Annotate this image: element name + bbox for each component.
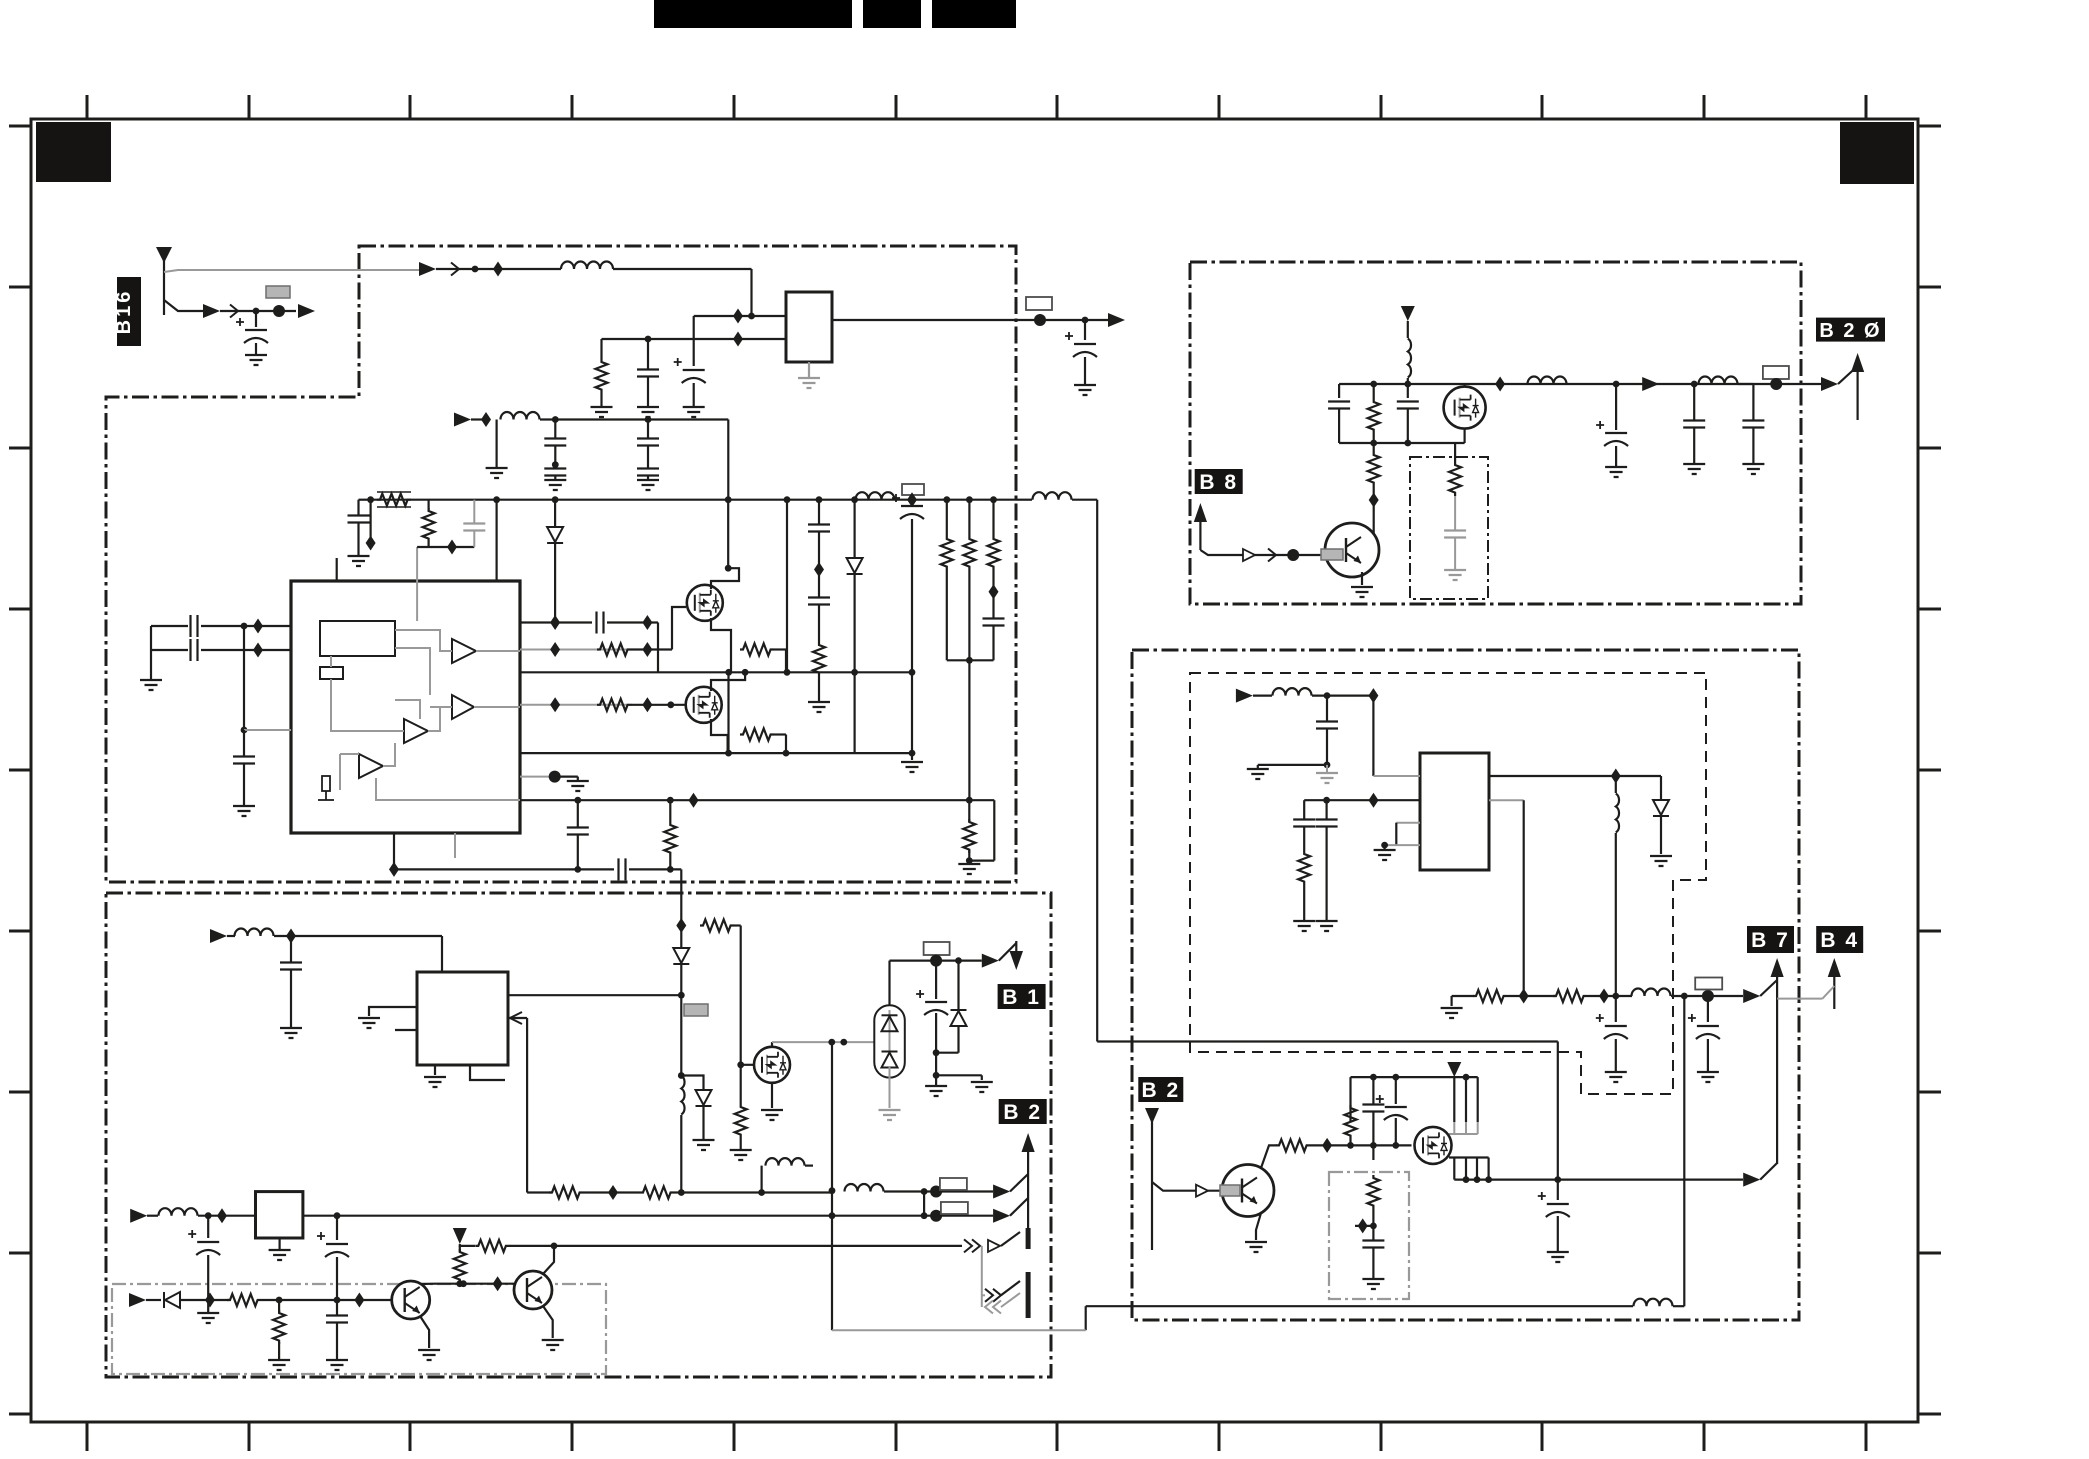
- inductor L return link: [1634, 1299, 1673, 1307]
- wire rail-A right: [613, 268, 752, 270]
- wire winding stub end: [805, 1164, 813, 1166]
- wire B1 gnd bar: [936, 1074, 982, 1076]
- MOSFET Q9 source pins: [1454, 1158, 1488, 1180]
- junction diamond osc lower: [253, 643, 263, 658]
- resistor R sense3: [988, 536, 1000, 570]
- solder junction comp: [549, 771, 561, 783]
- capacitor C snub1: [808, 525, 830, 532]
- junction diamond out-div: [1519, 989, 1529, 1004]
- chevron main rail entry: [451, 263, 459, 276]
- wire mid rail rise to transformer: [786, 500, 788, 673]
- MOSFET Q2 low-side: [686, 687, 722, 723]
- wire sense b: [261, 1299, 391, 1301]
- wire cap lead: [255, 311, 257, 327]
- junction return a: [725, 750, 732, 757]
- wire Q6 drain: [1463, 384, 1465, 386]
- svg-text:B 2: B 2: [1003, 1101, 1042, 1124]
- resistor R stby divider: [454, 1249, 466, 1283]
- wire FB R bottom lead: [669, 856, 671, 869]
- junction B1 diode tap: [955, 957, 962, 964]
- internal resistor bias: [322, 776, 330, 791]
- ground B7 entry b: [1316, 773, 1338, 783]
- wire RC mid top: [1373, 384, 1375, 399]
- wire snub chain bottom: [818, 676, 820, 702]
- junction Q1 drain: [725, 565, 732, 572]
- op-amp A1 driver: [452, 639, 476, 663]
- capacitor C osc lower: [191, 639, 198, 661]
- resistor R row3: [475, 1240, 509, 1252]
- arrow B20 mid: [1642, 377, 1659, 391]
- wire B4 connector slant: [1823, 986, 1835, 999]
- wire bus slant a: [1001, 1281, 1020, 1295]
- arrow aux2 entry: [130, 1209, 147, 1223]
- ground stby IC: [424, 1077, 446, 1087]
- gray dash-dot inner box standby input: [112, 1284, 606, 1374]
- wire sense a: [181, 1299, 229, 1301]
- diode D catch: [1653, 800, 1669, 816]
- solder junction reg output: [1034, 314, 1046, 326]
- wire gate4 row right: [631, 704, 686, 706]
- junction diamond gate4 out: [642, 697, 652, 712]
- junction diamond osc upper: [253, 619, 263, 634]
- wire B7 stem: [1776, 975, 1778, 1164]
- wire FB row right: [674, 1191, 832, 1193]
- safety resistor R-fusible: [377, 494, 411, 506]
- wire sense3 cap lead: [992, 595, 994, 618]
- wire B1 gnd stub: [981, 1075, 983, 1080]
- wire osc upper to IC: [201, 625, 291, 627]
- ground B16 cap: [245, 355, 267, 365]
- ground zener: [693, 1140, 715, 1150]
- junction FB sense: [966, 797, 973, 804]
- resistor R sense2: [963, 536, 975, 570]
- junction mid rail clamp: [851, 669, 858, 676]
- wire timing drop: [243, 626, 245, 730]
- wire catch diode gnd lead: [1660, 816, 1662, 854]
- junction B20 rail b: [1404, 381, 1411, 388]
- wire Q2 source to return: [711, 719, 728, 753]
- wire Rcs gnd stub: [968, 861, 970, 864]
- wire stby FB drop: [526, 1018, 528, 1193]
- inductor L buck: [1616, 794, 1619, 833]
- ground aux regulator: [269, 1250, 291, 1260]
- wire output row b: [1587, 995, 1632, 997]
- inductor L out row1: [845, 1184, 884, 1192]
- inductor L B20 filter2: [1699, 377, 1738, 385]
- junction diamond gate row: [1322, 1138, 1332, 1153]
- capacitor C osc upper: [191, 615, 198, 637]
- wire sense3 top: [992, 500, 994, 536]
- connector label B8: [1195, 469, 1243, 494]
- junction top rail c: [1463, 1074, 1470, 1081]
- wire B20 cap3 gnd lead: [1752, 428, 1754, 464]
- junction B20 ecap: [1613, 381, 1620, 388]
- wire B7-B4 link: [1777, 998, 1822, 1000]
- junction mid rail end: [784, 669, 791, 676]
- internal block ref: [320, 667, 343, 679]
- wire pulldown4 drop: [785, 735, 787, 754]
- wire B2 top rail: [1351, 1076, 1478, 1078]
- junction timing: [241, 727, 248, 734]
- junction sense C: [334, 1297, 341, 1304]
- wire vref pin drop: [416, 547, 418, 621]
- wire B2 output rail: [1454, 1178, 1743, 1180]
- inductor L output choke: [856, 492, 895, 500]
- capacitor C gate1: [597, 612, 604, 634]
- dash-dot outline main SMPS block: [106, 246, 1016, 882]
- arrow reg output: [1108, 313, 1125, 327]
- svg-text:B 1: B 1: [1002, 986, 1041, 1009]
- wire pin4 gnd stub: [1383, 845, 1385, 849]
- connector arrow B1 down: [1010, 951, 1024, 970]
- connector arrow B4 up: [1828, 958, 1841, 977]
- diode D drive: [673, 948, 689, 964]
- dash-dot outline B20/B8 block: [1190, 262, 1801, 604]
- MOSFET Q9 drain pins: [1454, 1077, 1477, 1122]
- wire C divider bottom lead: [473, 531, 475, 547]
- wire rail-B drop to transformer rail: [727, 420, 729, 500]
- ground B20 cap2: [1683, 464, 1705, 474]
- junction aux2 out: [334, 1212, 341, 1219]
- title redaction bar 2: [863, 0, 921, 28]
- wire cap2 bottom: [647, 476, 649, 480]
- op-amp A4 comparator: [359, 754, 383, 778]
- wire drive to choke: [680, 995, 682, 1074]
- wire B2 bus stem: [1027, 1150, 1029, 1228]
- junction gate4: [667, 701, 674, 708]
- transistor Q7 B8 switch: [1325, 523, 1379, 577]
- wire sense R gnd lead: [278, 1342, 280, 1360]
- junction diamond switch node: [1611, 769, 1621, 784]
- arrow B20 out: [1821, 377, 1838, 391]
- diode D boot: [547, 527, 563, 543]
- wire secondary winding return: [831, 1042, 833, 1330]
- wire Q5 emitter: [543, 1306, 553, 1338]
- wire return link row: [1086, 1305, 1633, 1307]
- value box row1: [940, 1178, 967, 1190]
- wire FB row mid: [583, 1191, 640, 1193]
- dashed inner box B7/B4 regulator: [1190, 673, 1706, 1094]
- junction diamond rail: [907, 492, 917, 507]
- wire stby FB pin: [508, 1017, 527, 1019]
- wire B20 ecap gnd lead: [1615, 446, 1617, 467]
- svg-text:B 8: B 8: [1199, 471, 1238, 494]
- wire stby bottom pin: [470, 1065, 505, 1080]
- wire output ecap lead: [1084, 320, 1086, 340]
- junction diamond Q7: [1369, 493, 1379, 508]
- wire pin3 drop: [1395, 823, 1397, 845]
- resistor R opto-1: [549, 1187, 583, 1199]
- wire regulator output: [832, 319, 1040, 321]
- wire rectifier internal: [889, 1010, 891, 1053]
- junction diamond aux: [286, 929, 296, 944]
- wire mosfet gate stub: [741, 1064, 755, 1066]
- wire R divider top: [459, 1246, 461, 1252]
- junction mid rail a: [725, 669, 732, 676]
- wire sense bus to FB row: [968, 660, 970, 800]
- connector label B20: [1816, 318, 1885, 342]
- junction drain rail a: [828, 1039, 835, 1046]
- wire stby drive out: [508, 994, 681, 996]
- capacitor C feedback: [567, 828, 589, 835]
- resistor R out-div2: [1553, 990, 1587, 1002]
- wire Q7 collector lead: [1373, 503, 1375, 535]
- MOSFET Q6 B20 switch: [1444, 387, 1486, 429]
- junction choke out: [1612, 993, 1619, 1000]
- wire gate2 to mosfet gate: [672, 607, 686, 650]
- solder junction B8: [1287, 549, 1299, 561]
- resistor R filter-A: [596, 359, 608, 393]
- junction Rcs: [966, 857, 973, 864]
- junction sense bus: [966, 657, 973, 664]
- internal wiring of PWM IC: [331, 630, 520, 858]
- wire buck FB pin: [1489, 799, 1524, 801]
- wire B20 cap2 top: [1693, 384, 1695, 420]
- wire drive R lead: [734, 924, 741, 926]
- wire cap lead: [357, 500, 359, 515]
- wire exit drop into secondary block: [680, 869, 682, 925]
- wire output gnd stub: [1450, 996, 1452, 1006]
- junction aux2: [205, 1212, 212, 1219]
- wire comp R link: [1303, 827, 1305, 851]
- wire entry rail: [1312, 694, 1373, 696]
- wire R divider top lead: [428, 500, 430, 510]
- ground filter C: [637, 407, 659, 417]
- wire comp stub: [555, 775, 578, 777]
- ground B7 entry a: [1247, 769, 1269, 779]
- wire buck pin1: [1373, 775, 1420, 777]
- wire Q5 collector: [543, 1246, 554, 1274]
- wire sense R lead: [278, 1300, 280, 1312]
- dash-dot outline right regulator block: [1132, 650, 1799, 1320]
- arrow B2 block out: [1743, 1173, 1760, 1187]
- ground gate resistor: [730, 1150, 752, 1160]
- resistor R divider: [423, 508, 435, 542]
- wire Q8 emitter: [1256, 1213, 1261, 1240]
- wire Q1 source to mid rail: [711, 618, 731, 672]
- wire link drop to B2 rail: [1557, 1042, 1559, 1180]
- wire divider stub: [1355, 1225, 1373, 1227]
- wire gate R gnd lead: [740, 1138, 742, 1150]
- capacitor C sense: [983, 619, 1005, 626]
- ground snubber: [808, 702, 830, 712]
- ground filter R: [591, 407, 613, 417]
- capacitor C pullup: [1362, 1105, 1384, 1112]
- wire aux2 output row: [303, 1215, 924, 1217]
- junction entry cap: [1324, 692, 1331, 699]
- ground B1 b: [971, 1082, 993, 1092]
- ground sense R: [268, 1360, 290, 1370]
- wire out ecap2 top: [1707, 996, 1709, 1022]
- wire cap2 lead: [647, 420, 649, 439]
- wire comp gnd lead: [577, 777, 579, 781]
- wire output row c: [1671, 995, 1743, 997]
- wire winding stub drop: [760, 1166, 762, 1193]
- wire aux cap lead: [290, 936, 292, 962]
- inductor L aux2: [159, 1208, 198, 1216]
- op-amp A2 driver: [452, 695, 474, 719]
- ground snub-A: [348, 556, 370, 566]
- junction drain rail b: [840, 1039, 847, 1046]
- ground out ecap2: [1697, 1072, 1719, 1082]
- wire comp pin: [520, 776, 555, 778]
- ground rail-B entry: [486, 468, 508, 478]
- wire B16 node segment: [220, 310, 296, 312]
- wire row2 to connector: [924, 1215, 993, 1217]
- capacitor C timing: [233, 757, 255, 764]
- wire B1 ecap top: [935, 961, 937, 999]
- wire pullup C top: [1372, 1077, 1374, 1104]
- resistor R gate4-pulldown: [740, 729, 774, 741]
- wire reg output to cap node: [1040, 319, 1085, 321]
- electrolytic capacitor C bulk: [892, 494, 924, 519]
- op-amp A3 comparator: [404, 719, 428, 743]
- electrolytic capacitor C B1: [916, 990, 948, 1015]
- ground B8 divider: [1444, 570, 1466, 580]
- resistor R opto-2: [640, 1187, 674, 1199]
- resistor R gate1-pulldown: [740, 644, 774, 656]
- wire comp cap2 gnd lead: [1325, 827, 1327, 921]
- connector label B2-in: [1138, 1077, 1183, 1102]
- wire buck pin2: [1304, 799, 1420, 801]
- B2 bus bar segment upper: [1026, 1228, 1031, 1249]
- wire out ecap top: [1557, 1180, 1559, 1200]
- wire Q2 drain to mid rail: [711, 672, 745, 691]
- wire exit row right: [629, 868, 681, 870]
- junction choke top: [678, 1072, 685, 1079]
- resistor R sense-in: [227, 1294, 261, 1306]
- corner index square top-right: [1840, 122, 1914, 184]
- junction row2 a: [921, 1212, 928, 1219]
- wire return riser to B7 row: [1683, 996, 1685, 1306]
- inductor L post filter: [1632, 989, 1671, 997]
- junction pin2 cap: [1323, 797, 1330, 804]
- junction secondary row1: [829, 1187, 836, 1194]
- wire return link b: [1673, 1305, 1684, 1307]
- internal block oscillator: [320, 621, 395, 656]
- wire timing cap lead: [243, 730, 245, 756]
- wire feedback row: [520, 799, 994, 801]
- electrolytic capacitor C reg-out: [1065, 332, 1097, 357]
- junction row3 Q2-collector: [551, 1243, 558, 1250]
- wire IC-reg lower input: [602, 338, 787, 340]
- wire catch diode top: [1660, 776, 1662, 800]
- wire rectifier lower lead: [889, 1066, 891, 1108]
- junction osc upper: [241, 623, 248, 630]
- junction cap1 mid: [552, 461, 559, 468]
- junction diamond FB row: [608, 1185, 618, 1200]
- wire comp R gnd lead: [1303, 885, 1305, 921]
- wire row3 connector slant: [1001, 1232, 1020, 1246]
- wire rail-B stub: [471, 418, 486, 420]
- wire gate1 row left: [520, 621, 592, 623]
- chevron B16 lower branch: [230, 305, 238, 318]
- ground Q7 emitter: [1351, 587, 1373, 597]
- svg-text:B 4: B 4: [1820, 929, 1859, 952]
- junction diamond exit: [389, 862, 399, 877]
- junction diamond snub: [814, 562, 824, 577]
- arrow B7 out: [1743, 989, 1760, 1003]
- value box B20 out: [1763, 366, 1789, 379]
- resistor R feedback: [664, 822, 676, 856]
- wire Q7 collector mid: [1373, 486, 1375, 497]
- electrolytic capacitor C filter-B: [674, 358, 706, 383]
- wire exit row left: [394, 868, 614, 870]
- wire B1 diode top: [957, 961, 959, 1010]
- wire row2 connector slant: [1010, 1198, 1028, 1216]
- wire cap1 mid: [554, 446, 556, 465]
- connector label B2: [999, 1099, 1047, 1124]
- ground B20 cap3: [1742, 464, 1764, 474]
- junction B1 filter: [933, 1049, 940, 1056]
- IC 3-terminal regulator U-aux: [256, 1192, 303, 1238]
- junction out rail d: [1554, 1176, 1561, 1183]
- gray dash-dot inner box B2 divider: [1329, 1172, 1409, 1299]
- resistor R gate-gnd: [735, 1104, 747, 1138]
- B16 input stub triangle: [156, 247, 172, 263]
- wire Q3 source: [771, 1083, 773, 1108]
- junction divider: [1370, 1223, 1377, 1230]
- wire aux cap ground lead: [290, 970, 292, 1028]
- wire osc pin upper: [151, 625, 188, 627]
- open arrow B8: [1243, 549, 1255, 561]
- diode D rect-2: [882, 1052, 898, 1068]
- wire link top a: [1016, 499, 1032, 501]
- junction diamond sense b: [354, 1293, 364, 1308]
- wire Q3 drain: [771, 1042, 773, 1047]
- wire R divider bottom: [459, 1280, 461, 1284]
- resistor R gate2: [597, 644, 631, 656]
- wire sense1 bottom: [946, 570, 948, 660]
- diode D clamp: [847, 558, 863, 574]
- junction gate row a: [1347, 1142, 1354, 1149]
- inductor L link top: [1033, 492, 1072, 500]
- junction diamond gate4: [550, 697, 560, 712]
- junction snubber chain: [816, 496, 823, 503]
- transistor Q4 standby sense: [392, 1281, 430, 1319]
- dual diode rectifier package D-pack: [874, 1005, 905, 1077]
- ground output divider: [1441, 1008, 1463, 1018]
- wire timing cap ground lead: [243, 764, 245, 806]
- junction return end: [909, 750, 916, 757]
- ground stby pin: [358, 1018, 380, 1028]
- ground aux2 in: [197, 1313, 219, 1323]
- wire comp cap1 lead: [1303, 800, 1305, 819]
- wire rectifier to B1 row: [888, 961, 890, 1006]
- wire row1 to connector: [884, 1190, 993, 1192]
- wire snub chain mid2: [818, 573, 820, 597]
- capacitor C aux: [280, 963, 302, 970]
- wire Q6 source: [1463, 429, 1465, 443]
- wire divider gnd lead: [1454, 538, 1456, 570]
- wire row1-row2 link: [923, 1192, 925, 1216]
- wire divider gnd lead: [1372, 1248, 1374, 1278]
- wire bus return drop: [981, 1246, 983, 1307]
- ground cap2: [637, 480, 659, 490]
- arrow B1 out: [982, 954, 999, 968]
- wire B2-in feed: [1152, 1182, 1222, 1191]
- wire osc lower to IC: [201, 649, 291, 651]
- wire B16 lower branch: [164, 300, 203, 311]
- wire divider drop: [370, 500, 372, 547]
- wire aux rail: [274, 935, 442, 937]
- junction diamond out b: [1599, 989, 1609, 1004]
- connector label B7: [1747, 926, 1794, 953]
- wire sense stub: [146, 1299, 161, 1301]
- junction diamond sense: [205, 1293, 215, 1308]
- wire vcc pin drop: [496, 500, 498, 581]
- wire clamp diode to return: [853, 574, 855, 753]
